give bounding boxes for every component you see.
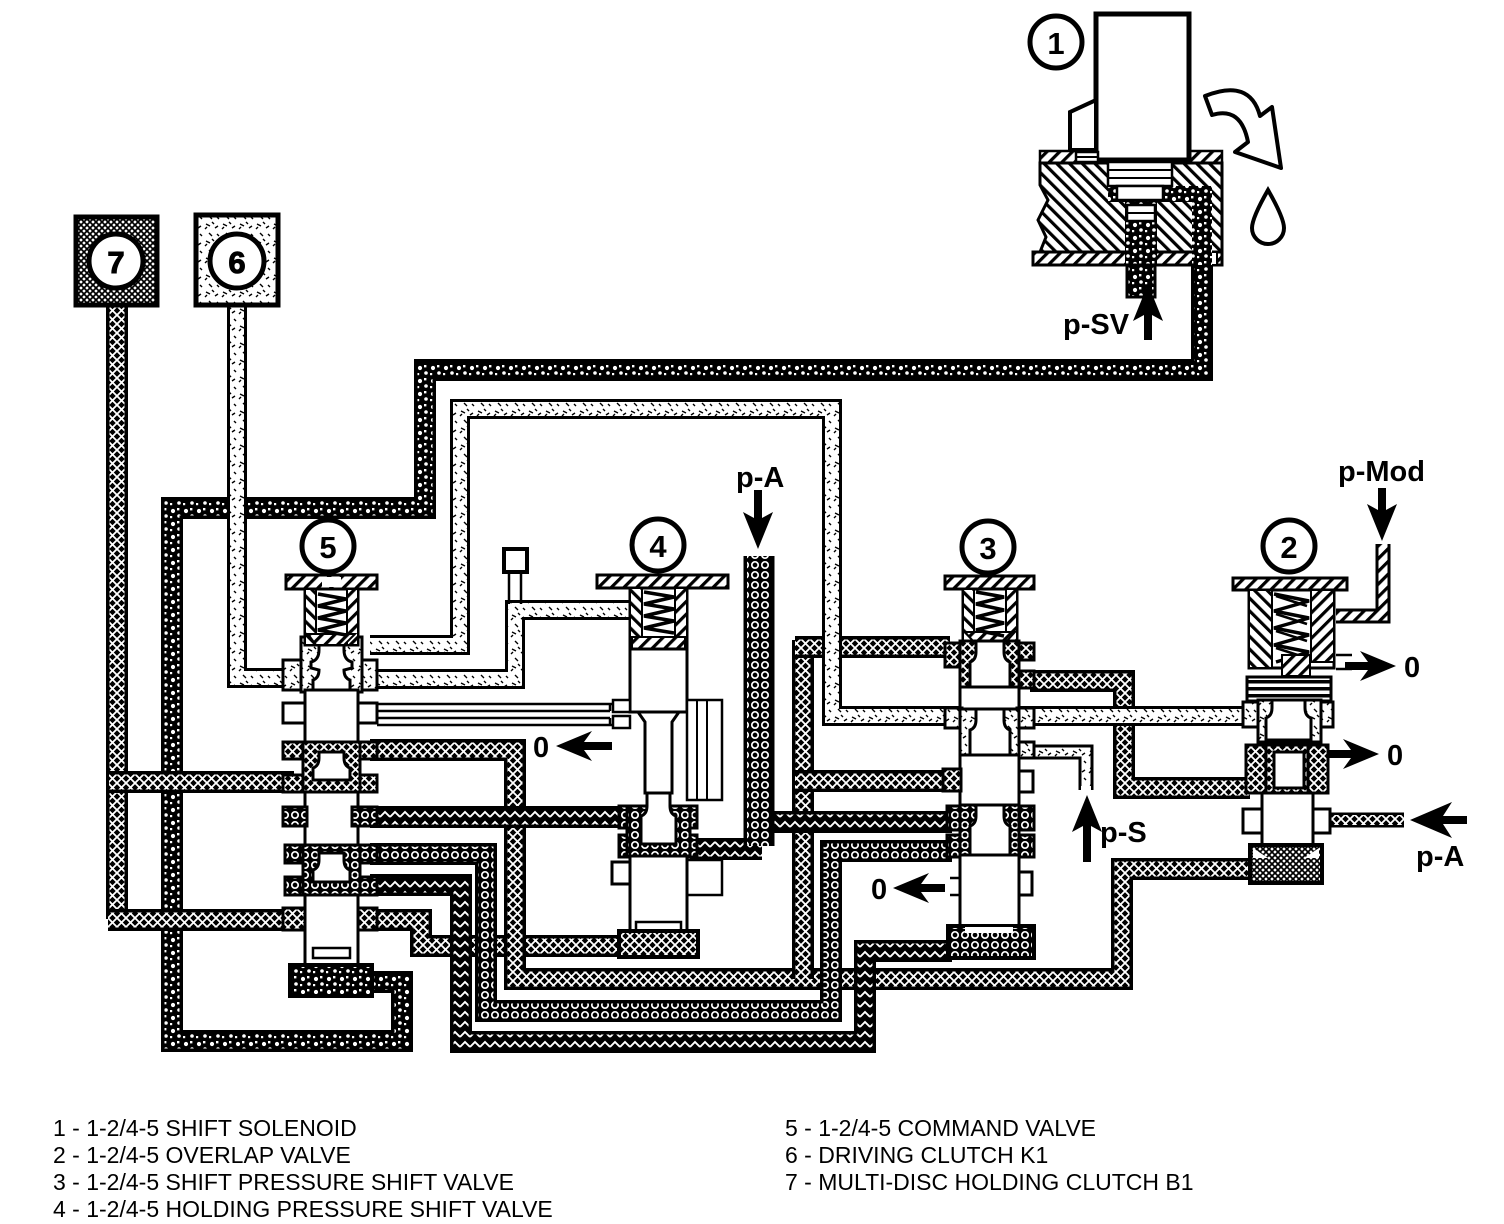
svg-text:0: 0: [533, 732, 549, 764]
wire p-A feed vertical dotted: [744, 556, 775, 846]
valve4 spring housing: [630, 588, 687, 649]
svg-text:2: 2: [1280, 530, 1297, 565]
wire W1 valve5 to valve4 left port: [370, 806, 628, 828]
wire route B valve5 to valve3 bottom base: [370, 885, 952, 1042]
solenoid U1 mounting plate top strip: [1040, 151, 1222, 163]
valve2 spring housing: [1249, 590, 1334, 668]
node 2 callout: [1263, 520, 1315, 572]
valve2 shims: [1247, 677, 1331, 701]
wire valve3 top-left feed: [795, 636, 950, 658]
svg-text:5: 5: [319, 530, 336, 565]
valve5 upper chamber speckle: [283, 660, 307, 690]
svg-text:p-A: p-A: [736, 462, 784, 494]
wire light loop valve5 to valve3 to valve2 upper port: [370, 409, 1250, 716]
valve5 land mid: [305, 792, 358, 847]
wire valve3 right to valve2 mid port: [1030, 681, 1250, 788]
wire valve5 port to long bottom run to valve2 base: [370, 750, 1255, 979]
wire box7 net vertical: [106, 300, 128, 919]
valve2 base: [1250, 845, 1322, 883]
valve4 lower land: [630, 856, 687, 933]
svg-text:3: 3: [979, 531, 996, 566]
droplet: [1252, 190, 1284, 244]
valve2 lower body: [1262, 793, 1313, 862]
svg-text:0: 0: [871, 874, 887, 906]
wire p-Mod pipe into valve2 spring: [1336, 544, 1383, 616]
wire box7 bottom run to valve5 bottom-left port: [108, 909, 294, 931]
valve5 bottom land: [305, 895, 358, 965]
node 3 callout: [962, 521, 1014, 573]
svg-text:0: 0: [1387, 740, 1403, 772]
solenoid hatched block: [1038, 163, 1222, 252]
wire p-A right pipe into valve2: [1326, 813, 1404, 828]
svg-text:1 - 1-2/4-5 SHIFT SOLENOID: 1 - 1-2/4-5 SHIFT SOLENOID: [53, 1115, 357, 1141]
solenoid coil body: [1096, 14, 1189, 160]
solenoid internal channel speckle: [1108, 186, 1212, 202]
svg-text:p-SV: p-SV: [1063, 309, 1130, 341]
wire W2 valve4 right port to p-A junction: [690, 838, 762, 860]
valve4 stem: [638, 712, 679, 793]
valve3 xx chamber: [945, 643, 965, 667]
svg-text:4 - 1-2/4-5 HOLDING PRESSURE S: 4 - 1-2/4-5 HOLDING PRESSURE SHIFT VALVE: [53, 1196, 553, 1222]
svg-text:p-A: p-A: [1416, 841, 1464, 873]
leak arrow curved: [1205, 90, 1281, 168]
valve3 base: [948, 926, 1034, 958]
svg-text:7 - MULTI-DISC HOLDING CLUTCH: 7 - MULTI-DISC HOLDING CLUTCH B1: [785, 1169, 1194, 1195]
svg-text:6: 6: [228, 245, 245, 280]
valve5 spring housing: [305, 589, 358, 645]
valve4 chain chamber: [619, 806, 645, 828]
valve4 right thin channel column: [687, 700, 722, 800]
valve4 cap: [597, 575, 728, 588]
svg-text:6 - DRIVING CLUTCH K1: 6 - DRIVING CLUTCH K1: [785, 1142, 1048, 1168]
valve2 zero stub top: [1336, 655, 1352, 669]
valve3 light chamber: [945, 708, 962, 728]
valve2 xx chamber: [1246, 745, 1271, 793]
valve3 spring housing: [963, 589, 1017, 642]
wire W3 p-A junction to valve3 left port: [758, 811, 952, 833]
clutch box 6 (driving clutch K1): [196, 215, 278, 305]
wire valve5 bottom-right jog to valve4 base: [370, 920, 625, 946]
node 5 callout: [302, 520, 354, 572]
plug square above valve4: [504, 549, 527, 572]
svg-text:1: 1: [1047, 26, 1064, 61]
wire p-SV dark net: solenoid down, top run, left drop, mid-left run, left drop, bottom run to valve5 base: [172, 205, 1202, 1041]
wire box6 light pipe to valve5 upper-left port: [237, 300, 290, 678]
valve4 base: [619, 931, 698, 957]
valve3 land2: [960, 755, 1019, 807]
clutch box 7 (multi-disc holding clutch B1): [76, 217, 157, 305]
svg-text:4: 4: [649, 529, 667, 564]
valve5 xx chamber: [283, 742, 307, 759]
svg-text:p-Mod: p-Mod: [1338, 456, 1425, 488]
wire route A valve5 to valve3 lower-left port: [370, 851, 952, 1011]
node 4 callout: [632, 519, 684, 571]
wire light valve5 to plug square and valve4 spring: [370, 610, 632, 679]
valve2 cap: [1233, 578, 1347, 590]
valve5 cap: [286, 575, 377, 589]
valve4 left thin ports: [613, 700, 630, 712]
node 1 callout: [1030, 16, 1082, 68]
valve3 land1: [960, 687, 1019, 712]
svg-text:0: 0: [1404, 652, 1420, 684]
valve4 body: [630, 649, 687, 712]
valve3 cap: [945, 576, 1034, 589]
valve5 land upper: [305, 690, 358, 752]
valve3 land3: [960, 855, 1019, 926]
valve5 spool neck top: [311, 637, 352, 690]
svg-text:3 - 1-2/4-5 SHIFT PRESSURE SHI: 3 - 1-2/4-5 SHIFT PRESSURE SHIFT VALVE: [53, 1169, 514, 1195]
valve5 spring: [318, 594, 346, 635]
svg-text:5 - 1-2/4-5 COMMAND VALVE: 5 - 1-2/4-5 COMMAND VALVE: [785, 1115, 1096, 1141]
valve3 chain chamber: [947, 806, 963, 830]
valve2 upper chamber: [1243, 702, 1260, 727]
svg-text:2 - 1-2/4-5 OVERLAP VALVE: 2 - 1-2/4-5 OVERLAP VALVE: [53, 1142, 351, 1168]
valve5 base: [290, 965, 372, 996]
wire valve3 top-left drop: [792, 640, 814, 979]
wire p-S open pipe from valve3: [1030, 752, 1086, 790]
solenoid armature white parts: [1108, 162, 1172, 186]
wire box7 branch to valve5 left port: [109, 771, 294, 793]
valve5 chain chamber: [285, 845, 307, 863]
solenoid connector: [1070, 100, 1096, 150]
wire thin twin channels valve5 to valve4: [377, 704, 618, 725]
wire valve3 mid-left feed: [795, 770, 950, 792]
solenoid bottom plate: [1033, 252, 1222, 265]
svg-text:p-S: p-S: [1100, 817, 1147, 849]
svg-text:7: 7: [107, 245, 124, 280]
solenoid p-SV inlet stub: [1127, 265, 1155, 297]
